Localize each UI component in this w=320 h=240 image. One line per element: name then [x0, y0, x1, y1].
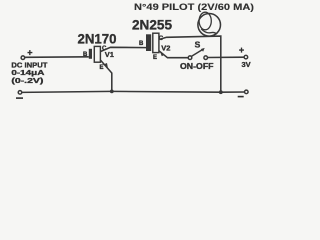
bottom rail wire	[22, 91, 245, 92]
svg-text:E: E	[100, 65, 104, 71]
minus label left	[16, 97, 23, 99]
svg-text:2N255: 2N255	[132, 17, 172, 33]
transistor V2 2N255 base bar	[146, 34, 151, 51]
svg-text:2N170: 2N170	[78, 31, 117, 47]
svg-text:V1: V1	[105, 50, 114, 59]
wire V1 collector to V2 base	[101, 47, 146, 51]
svg-text:(0-.2V): (0-.2V)	[11, 76, 44, 85]
svg-text:+: +	[27, 47, 32, 57]
transistor V1 body rectangle	[94, 46, 100, 62]
svg-text:ON-OFF: ON-OFF	[180, 62, 214, 71]
switch S left contact	[188, 56, 192, 60]
emitter arrow V2	[160, 52, 164, 57]
wire DC+ to V1 base	[25, 56, 89, 59]
transistor V2 body rectangle	[153, 33, 159, 52]
switch blade	[192, 49, 203, 56]
wire V2 emitter to switch	[159, 51, 188, 58]
transistor V1 2N170 base bar	[89, 49, 92, 59]
junction dot right rail bottom	[219, 90, 223, 94]
DC input - terminal	[18, 91, 22, 95]
switch S right contact	[204, 56, 208, 60]
emitter arrow V1	[104, 63, 109, 69]
svg-text:V2: V2	[161, 43, 170, 52]
svg-text:3V: 3V	[242, 60, 251, 69]
battery + terminal	[244, 55, 248, 59]
battery - terminal	[245, 90, 249, 94]
svg-text:N°49 PILOT (2V/60 MA): N°49 PILOT (2V/60 MA)	[134, 2, 254, 12]
svg-text:+: +	[239, 45, 244, 55]
pilot lamp filament tail	[201, 29, 217, 34]
switch blade arrowhead	[201, 48, 205, 52]
pilot lamp I1 circle	[198, 13, 221, 36]
wire switch to battery +	[208, 56, 244, 58]
DC input + terminal	[21, 56, 25, 60]
svg-text:E: E	[153, 55, 157, 61]
svg-text:S: S	[195, 40, 201, 50]
minus label right	[238, 96, 244, 98]
svg-text:B: B	[83, 52, 88, 58]
svg-text:B: B	[139, 41, 144, 47]
wire V2 collector to lamp and right rail	[159, 36, 221, 92]
wire V1 emitter down to rail	[101, 60, 112, 91]
pilot lamp filament loop	[199, 12, 211, 30]
junction dot V1 emitter on rail	[110, 90, 114, 94]
